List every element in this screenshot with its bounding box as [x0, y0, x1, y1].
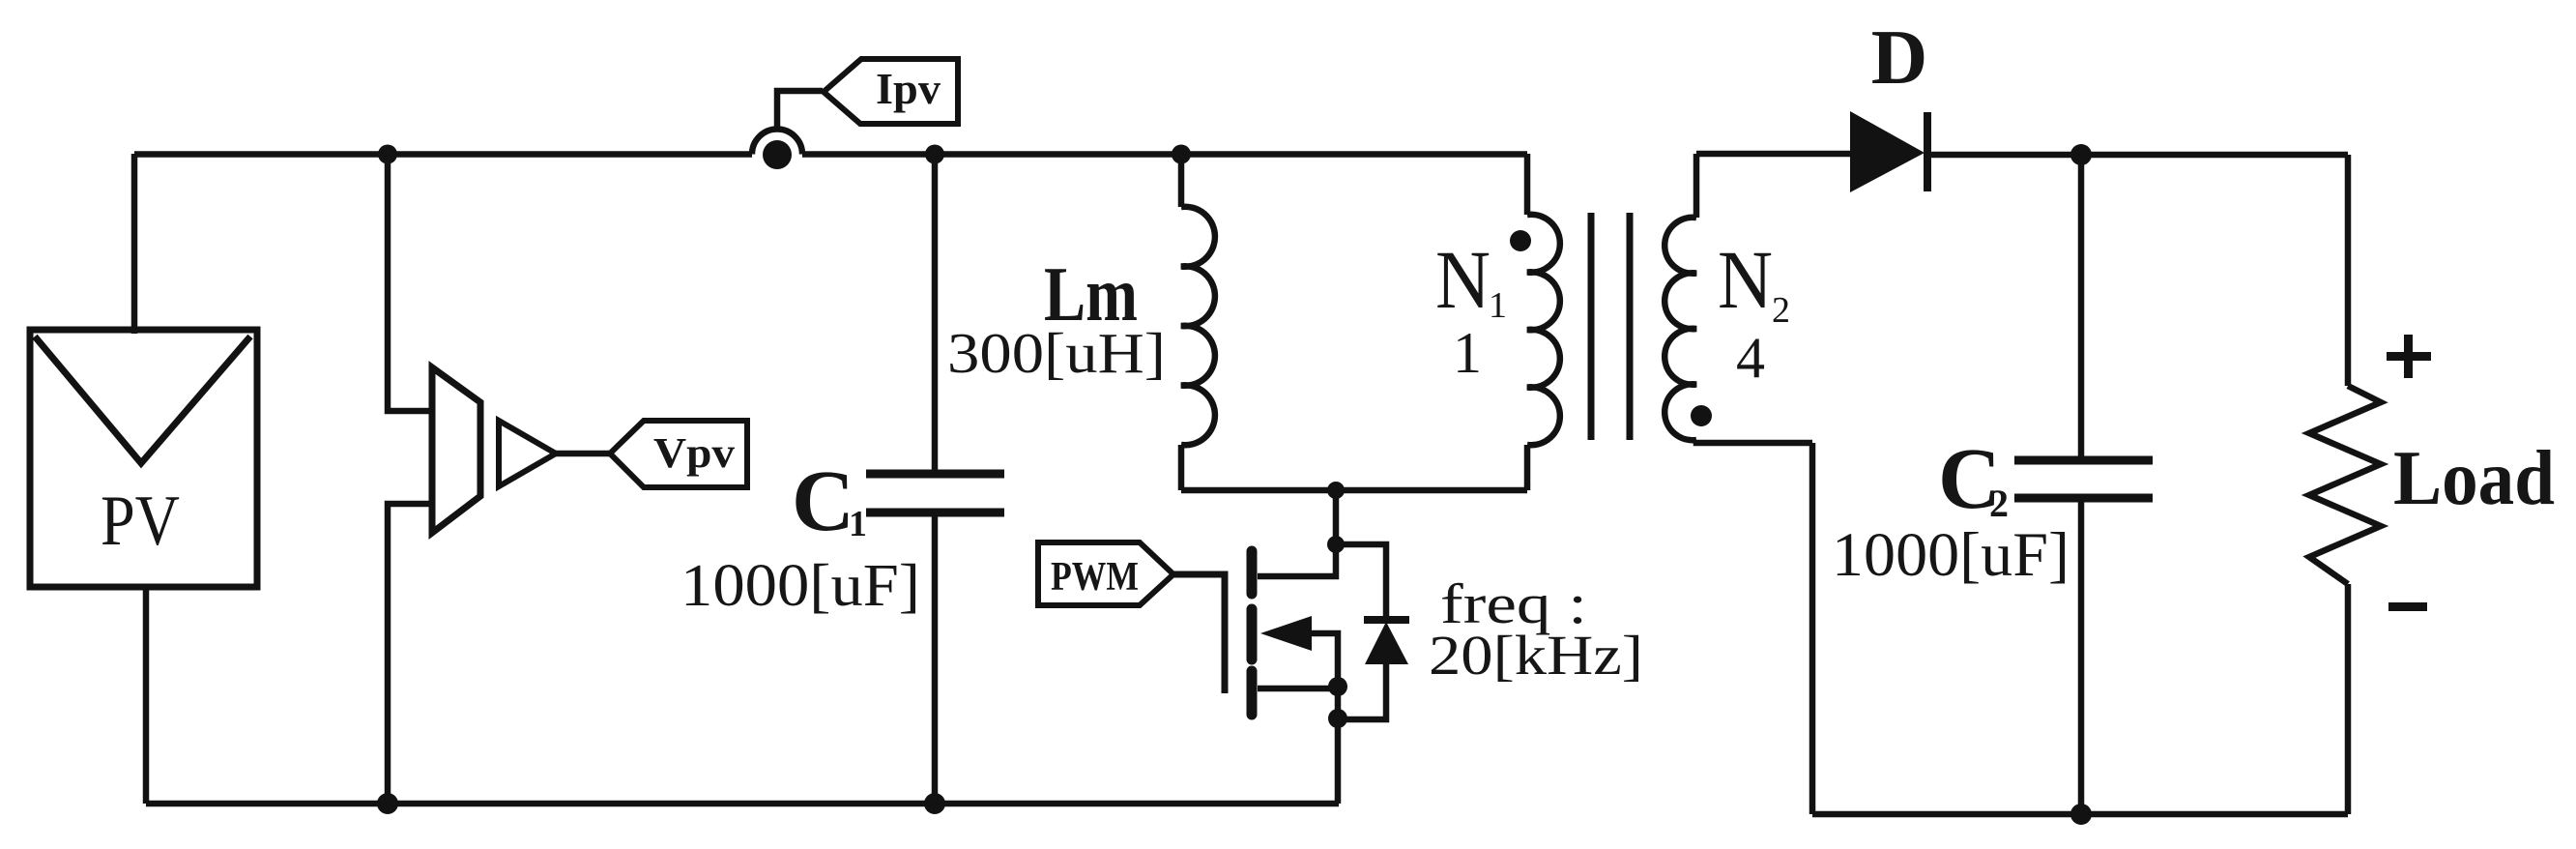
transformer core bar right: [1627, 213, 1634, 440]
load minus sign: [2388, 602, 2427, 611]
wire body diode bottom: [1338, 664, 1386, 719]
svg-text:PWM: PWM: [1051, 555, 1139, 600]
control flag PWM: [1038, 542, 1173, 605]
node junction top / C2: [2070, 144, 2092, 165]
current probe Ipv arc: [752, 130, 802, 155]
node junction top rail / Vpv branch: [378, 145, 397, 164]
node source / body diode: [1328, 709, 1347, 728]
svg-text:20[kHz]: 20[kHz]: [1429, 624, 1643, 687]
node junction bottom rail / C1: [924, 793, 945, 814]
svg-text:4: 4: [1736, 326, 1765, 390]
solar panel PV triangle: [35, 337, 250, 463]
wire C1 bottom lead: [932, 512, 939, 804]
capacitor C1 top plate: [866, 470, 1004, 479]
wire Lm top lead: [1178, 154, 1185, 207]
node junction bottom rail / Vpv branch: [377, 793, 398, 814]
svg-text:Load: Load: [2393, 436, 2555, 521]
wire N2 bottom lead: [1696, 440, 1812, 443]
wire bottom right rail: [1812, 811, 2348, 818]
MOSFET gate lead: [1173, 574, 1225, 693]
wire load bottom lead: [2345, 584, 2352, 814]
svg-text:PV: PV: [101, 482, 180, 561]
wire Vpv branch lower: [388, 504, 434, 804]
wire N2 top lead: [1693, 154, 1700, 218]
svg-text:300[uH]: 300[uH]: [947, 321, 1166, 385]
node junction bottom / C2: [2070, 804, 2092, 825]
svg-text:Ipv: Ipv: [876, 64, 941, 113]
body diode triangle: [1365, 622, 1408, 664]
wire bottom left rail: [146, 801, 1339, 807]
svg-text:D: D: [1871, 14, 1928, 101]
wire PV bottom lead: [143, 587, 150, 804]
svg-text:N: N: [1435, 233, 1491, 326]
wire drain bar link: [1258, 544, 1336, 576]
voltage sensor amplifier: [432, 367, 480, 533]
voltage probe buffer triangle: [499, 421, 556, 486]
capacitor C2 top plate: [2014, 456, 2153, 465]
solar panel PV box: [30, 330, 257, 587]
wire C2 bottom lead: [2078, 498, 2085, 814]
wire top rail left segment: [134, 151, 752, 158]
MOSFET channel dash 3: [1247, 671, 1258, 715]
svg-text:2: 2: [1772, 290, 1790, 331]
svg-text:Vpv: Vpv: [653, 429, 735, 477]
wire PV top lead: [131, 154, 138, 334]
wire body diode branch top: [1336, 544, 1386, 620]
transformer primary N1 coil: [1527, 215, 1560, 446]
MOSFET channel dash 1: [1247, 551, 1258, 594]
node MOSFET source: [1328, 677, 1347, 696]
transformer secondary N2 coil: [1664, 218, 1696, 440]
svg-text:1: 1: [849, 504, 867, 544]
wire Vpv branch upper: [388, 154, 434, 411]
wire N1 top lead: [1524, 154, 1531, 215]
svg-text:1: 1: [1489, 285, 1507, 326]
node junction top rail / Lm: [1172, 145, 1191, 164]
transformer core bar left: [1588, 213, 1595, 440]
wire diode to load top: [1927, 152, 2348, 159]
wire N2 return vertical: [1809, 443, 1816, 814]
node MOSFET drain: [1327, 536, 1345, 553]
wire N2 to diode: [1696, 151, 1850, 158]
MOSFET source bar: [1258, 686, 1338, 692]
body diode cathode bar: [1364, 616, 1409, 624]
node junction top rail / C1: [925, 145, 944, 164]
wire probe to flag: [556, 451, 611, 457]
svg-text:1000[uF]: 1000[uF]: [680, 553, 920, 619]
svg-text:1000[uF]: 1000[uF]: [1832, 520, 2069, 590]
node junction loop bottom / MOSFET: [1327, 482, 1345, 499]
wire MOSFET drain top: [1333, 490, 1340, 544]
wire top rail right segment: [802, 151, 1527, 158]
probe flag Ipv: [824, 59, 958, 124]
svg-text:2: 2: [1989, 482, 2009, 525]
wire N1 bottom lead: [1524, 445, 1531, 490]
diode D triangle: [1850, 111, 1925, 192]
wire Lm bottom lead: [1178, 445, 1185, 490]
wire C1 top lead: [932, 154, 939, 474]
wire probe stub: [777, 91, 823, 129]
current probe Ipv dot: [763, 140, 792, 169]
probe flag Vpv: [610, 421, 747, 487]
diode D cathode bar: [1924, 112, 1931, 191]
inductor Lm coil: [1181, 207, 1215, 446]
transformer N1 phase dot: [1510, 230, 1531, 251]
capacitor C1 bottom plate: [866, 509, 1004, 517]
svg-text:1: 1: [1453, 321, 1482, 385]
MOSFET channel dash 2: [1247, 609, 1258, 659]
wire primary loop bottom: [1181, 487, 1527, 494]
svg-text:N: N: [1718, 233, 1773, 326]
transformer N2 phase dot: [1691, 405, 1712, 426]
wire load top lead: [2345, 155, 2352, 386]
capacitor C2 bottom plate: [2014, 494, 2153, 503]
wire source down: [1335, 687, 1342, 804]
svg-text:C: C: [792, 454, 854, 549]
MOSFET substrate arrow: [1260, 616, 1312, 651]
wire substrate link: [1310, 633, 1338, 687]
resistor Load zigzag: [2309, 386, 2381, 584]
wire C2 top lead: [2078, 155, 2085, 460]
load plus sign: [2387, 335, 2431, 378]
